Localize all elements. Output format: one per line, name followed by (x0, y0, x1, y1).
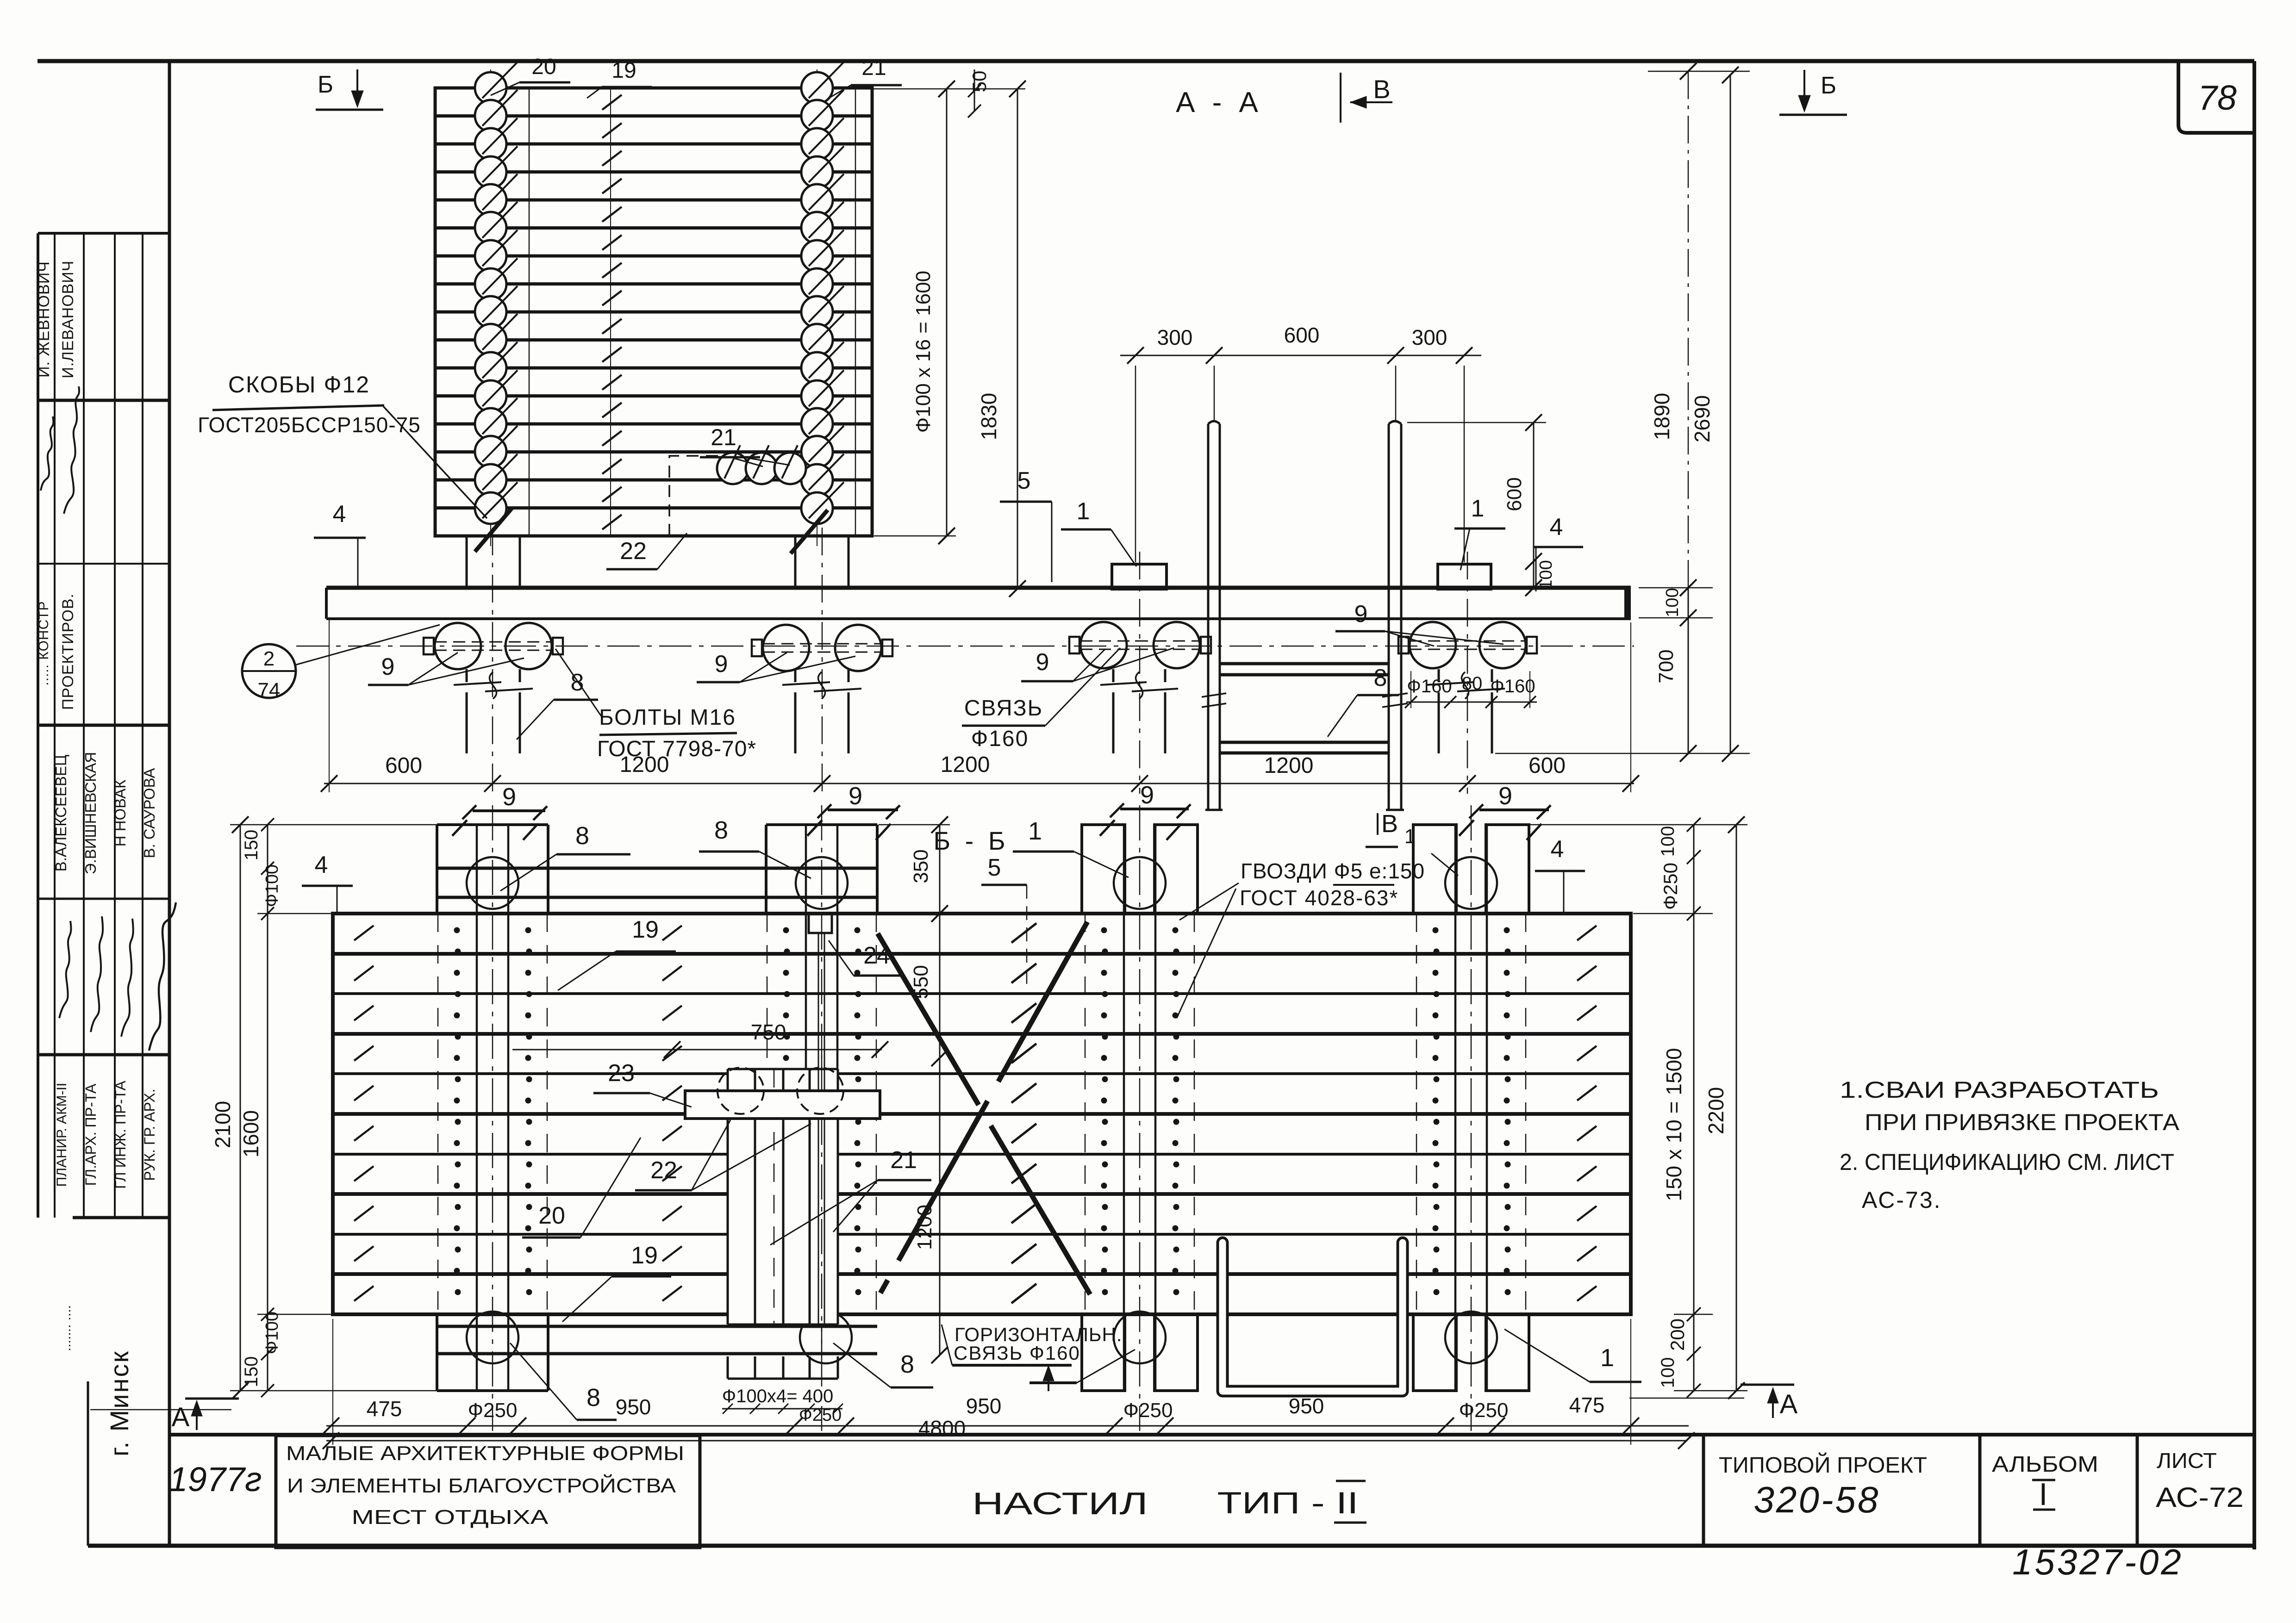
svg-text:МЕСТ ОТДЫХА: МЕСТ ОТДЫХА (352, 1506, 549, 1529)
svg-text:2200: 2200 (1704, 1087, 1728, 1134)
svg-text:23: 23 (608, 1060, 635, 1087)
svg-text:550: 550 (910, 965, 932, 999)
svg-text:И.ЛЕВАНОВИЧ: И.ЛЕВАНОВИЧ (59, 261, 77, 379)
svg-text:9: 9 (849, 782, 862, 810)
svg-text:1: 1 (1471, 495, 1485, 522)
svg-text:АС-72: АС-72 (2156, 1482, 2244, 1513)
svg-text:600: 600 (1284, 323, 1320, 347)
svg-text:150 х 10 = 1500: 150 х 10 = 1500 (1662, 1048, 1686, 1201)
svg-text:СКОБЫ Ф12: СКОБЫ Ф12 (228, 372, 370, 398)
svg-text:СВЯЗЬ: СВЯЗЬ (964, 696, 1043, 721)
svg-text:2: 2 (263, 647, 275, 670)
svg-text:В: В (1381, 810, 1398, 838)
svg-text:1200: 1200 (941, 752, 990, 777)
svg-text:НАСТИЛ: НАСТИЛ (972, 1486, 1148, 1521)
svg-text:И. ЖЕВНОВИЧ: И. ЖЕВНОВИЧ (35, 261, 53, 378)
svg-text:300: 300 (1157, 325, 1193, 349)
svg-text:Ф160: Ф160 (971, 727, 1029, 751)
svg-text:15327-02: 15327-02 (2012, 1542, 2184, 1582)
svg-text:100: 100 (1663, 588, 1682, 617)
svg-text:4: 4 (315, 852, 328, 878)
svg-text:8: 8 (714, 816, 728, 844)
svg-text:ГОСТ205БССР150-75: ГОСТ205БССР150-75 (198, 413, 421, 437)
svg-text:9: 9 (502, 783, 516, 811)
svg-text:Ф100х4= 400: Ф100х4= 400 (722, 1386, 834, 1406)
svg-text:РУК. ГР. АРХ.: РУК. ГР. АРХ. (141, 1088, 158, 1181)
svg-text:ПРОЕКТИРОВ.: ПРОЕКТИРОВ. (59, 593, 77, 710)
svg-text:1890: 1890 (1650, 393, 1674, 440)
svg-text:ЛИСТ: ЛИСТ (2157, 1449, 2217, 1473)
svg-text:78: 78 (2198, 78, 2237, 117)
svg-text:700: 700 (1655, 649, 1678, 683)
svg-text:1: 1 (1077, 498, 1090, 525)
svg-text:1200: 1200 (1264, 753, 1314, 778)
svg-text:АС-73.: АС-73. (1862, 1187, 1942, 1213)
svg-text:ГВОЗДИ Ф5 е:150: ГВОЗДИ Ф5 е:150 (1241, 859, 1425, 883)
svg-text:600: 600 (1529, 753, 1566, 778)
svg-text:21: 21 (711, 424, 736, 450)
svg-text:24: 24 (863, 942, 890, 969)
svg-text:475: 475 (367, 1397, 402, 1421)
svg-text:20: 20 (531, 55, 556, 79)
svg-text:100: 100 (1658, 826, 1678, 857)
svg-text:Б: Б (318, 71, 333, 98)
svg-text:БОЛТЫ М16: БОЛТЫ М16 (599, 705, 736, 730)
svg-text:5: 5 (988, 854, 1001, 881)
svg-text:1600: 1600 (239, 1110, 263, 1157)
svg-text:В: В (1373, 75, 1390, 104)
svg-text:150: 150 (241, 1356, 262, 1387)
svg-text:19: 19 (631, 1242, 658, 1269)
svg-text:ПРИ ПРИВЯЗКЕ ПРОЕКТА: ПРИ ПРИВЯЗКЕ ПРОЕКТА (1865, 1109, 2180, 1135)
svg-text:Э.ВИШНЕВСКАЯ: Э.ВИШНЕВСКАЯ (82, 752, 99, 875)
svg-text:350: 350 (910, 849, 932, 883)
svg-text:200: 200 (1666, 1318, 1688, 1351)
svg-text:..... КОНСТР: ..... КОНСТР (36, 601, 51, 685)
svg-text:22: 22 (650, 1157, 677, 1184)
svg-text:I: I (2039, 1477, 2048, 1512)
svg-text:Ф160: Ф160 (1407, 676, 1452, 696)
svg-text:20: 20 (538, 1202, 565, 1229)
svg-text:8: 8 (1374, 665, 1387, 691)
svg-text:5: 5 (1017, 467, 1031, 494)
svg-text:СВЯЗЬ Ф160: СВЯЗЬ Ф160 (954, 1342, 1080, 1364)
svg-text:4: 4 (1551, 836, 1564, 863)
svg-text:Б: Б (1821, 72, 1836, 99)
svg-text:И ЭЛЕМЕНТЫ БЛАГОУСТРОЙСТВА: И ЭЛЕМЕНТЫ БЛАГОУСТРОЙСТВА (287, 1474, 676, 1497)
svg-text:ГОСТ 4028-63*: ГОСТ 4028-63* (1240, 886, 1398, 910)
svg-text:475: 475 (1569, 1393, 1605, 1417)
svg-text:80: 80 (1462, 673, 1483, 694)
svg-text:г. Минск: г. Минск (105, 1350, 134, 1456)
svg-text:....... ....: ....... .... (58, 1305, 74, 1351)
svg-text:4800: 4800 (918, 1416, 966, 1440)
svg-text:Ф250: Ф250 (1123, 1399, 1173, 1422)
svg-text:ТИПОВОЙ ПРОЕКТ: ТИПОВОЙ ПРОЕКТ (1719, 1452, 1927, 1478)
svg-text:21: 21 (890, 1147, 917, 1174)
svg-text:21: 21 (861, 56, 886, 80)
svg-text:8: 8 (586, 1384, 600, 1412)
svg-text:4: 4 (333, 501, 346, 528)
svg-text:320-58: 320-58 (1753, 1479, 1880, 1520)
svg-text:Ф100 х 16 = 1600: Ф100 х 16 = 1600 (912, 271, 935, 433)
svg-text:950: 950 (966, 1394, 1002, 1418)
svg-text:ПЛАНИР. АКМ-II: ПЛАНИР. АКМ-II (54, 1083, 69, 1187)
svg-text:А: А (172, 1402, 190, 1432)
svg-text:2690: 2690 (1690, 395, 1714, 442)
svg-text:Ф250: Ф250 (468, 1399, 518, 1422)
svg-text:1977г: 1977г (168, 1460, 262, 1499)
svg-text:1: 1 (1028, 817, 1042, 845)
svg-text:19: 19 (611, 58, 636, 83)
svg-text:950: 950 (1289, 1394, 1324, 1418)
svg-text:Ф160: Ф160 (1490, 676, 1535, 696)
svg-text:1: 1 (1404, 825, 1416, 848)
svg-text:600: 600 (385, 753, 422, 778)
svg-text:100: 100 (1658, 1357, 1678, 1388)
svg-text:9: 9 (381, 653, 395, 680)
svg-text:МАЛЫЕ АРХИТЕКТУРНЫЕ ФОРМЫ: МАЛЫЕ АРХИТЕКТУРНЫЕ ФОРМЫ (286, 1442, 684, 1465)
svg-text:В. САУРОВА: В. САУРОВА (141, 768, 158, 858)
svg-text:300: 300 (1412, 325, 1447, 349)
svg-text:9: 9 (715, 651, 728, 678)
svg-text:Ф100: Ф100 (262, 864, 282, 907)
svg-text:ГЛ ИНЖ. ПР-ТА: ГЛ ИНЖ. ПР-ТА (112, 1081, 129, 1189)
svg-text:9: 9 (1498, 782, 1512, 810)
svg-text:750: 750 (751, 1020, 786, 1044)
svg-text:1200: 1200 (913, 1205, 936, 1250)
svg-text:74: 74 (258, 679, 281, 702)
svg-text:8: 8 (900, 1350, 914, 1378)
svg-text:150: 150 (241, 830, 262, 861)
svg-text:Ф100: Ф100 (262, 1312, 282, 1354)
svg-text:Ф250: Ф250 (1660, 863, 1681, 910)
svg-text:А: А (1780, 1389, 1798, 1419)
svg-text:9: 9 (1140, 781, 1154, 809)
svg-text:950: 950 (616, 1395, 651, 1419)
svg-text:1830: 1830 (977, 393, 1001, 440)
svg-text:100: 100 (1536, 560, 1556, 589)
svg-text:ТИП - II: ТИП - II (1217, 1486, 1359, 1520)
svg-text:Б - Б: Б - Б (933, 826, 1009, 855)
svg-text:1: 1 (1600, 1344, 1614, 1372)
svg-text:АЛЬБОМ: АЛЬБОМ (1992, 1452, 2098, 1477)
svg-text:9: 9 (1354, 601, 1368, 628)
svg-text:22: 22 (620, 538, 647, 565)
svg-text:1.СВАИ РАЗРАБОТАТЬ: 1.СВАИ РАЗРАБОТАТЬ (1840, 1077, 2159, 1103)
svg-text:А - А: А - А (1176, 87, 1263, 118)
svg-text:19: 19 (632, 916, 659, 943)
svg-text:2. СПЕЦИФИКАЦИЮ СМ. ЛИСТ: 2. СПЕЦИФИКАЦИЮ СМ. ЛИСТ (1840, 1149, 2174, 1175)
svg-text:4: 4 (1550, 514, 1563, 541)
svg-text:9: 9 (1036, 649, 1049, 676)
svg-text:ГЛ.АРХ. ПР-ТА: ГЛ.АРХ. ПР-ТА (82, 1083, 99, 1186)
svg-text:Н НОВАК: Н НОВАК (112, 779, 129, 846)
svg-text:В.АЛЕКСЕЕВЕЦ: В.АЛЕКСЕЕВЕЦ (52, 755, 69, 872)
svg-text:Ф250: Ф250 (1459, 1399, 1509, 1422)
svg-text:8: 8 (575, 822, 589, 850)
svg-text:600: 600 (1503, 477, 1526, 511)
svg-text:2100: 2100 (211, 1101, 235, 1148)
svg-text:1200: 1200 (620, 752, 669, 777)
